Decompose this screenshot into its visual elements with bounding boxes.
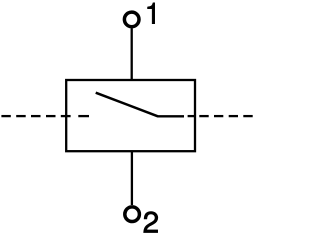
switch contact fixed throw [157, 115, 184, 117]
pin label 2 [144, 212, 158, 233]
wire from switch box to terminal 2 [131, 151, 133, 205]
mechanical actuation line (dashed), right segment [188, 115, 253, 117]
switch contact lever (open contact) [96, 93, 158, 117]
mechanical actuation line (dashed), left outside segment [1, 115, 89, 117]
wire from terminal 1 to switch box [131, 28, 133, 80]
pin label 1 [147, 3, 154, 24]
switch S1 enclosure box [66, 80, 195, 151]
terminal 2 (bottom circle) [125, 207, 140, 222]
terminal 1 (top circle) [124, 12, 139, 27]
